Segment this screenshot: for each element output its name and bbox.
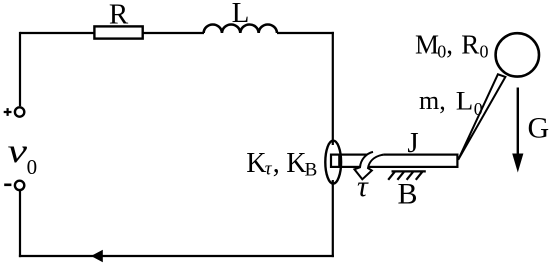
- svg-text:0: 0: [474, 99, 483, 119]
- wire bottom horizontal: [19, 255, 334, 257]
- resistor R: [94, 26, 142, 38]
- hatch stroke 3: [407, 171, 414, 179]
- svg-text:B: B: [397, 177, 417, 210]
- wire motor-to-bottom vertical: [332, 180, 334, 257]
- svg-text:M: M: [415, 30, 439, 60]
- wire left vertical upper: [19, 32, 21, 106]
- svg-text:τ: τ: [265, 159, 273, 180]
- hatch stroke 4: [416, 171, 423, 179]
- wire left vertical lower: [19, 191, 21, 258]
- terminal plus circle: [15, 107, 24, 116]
- svg-text:K: K: [286, 148, 306, 179]
- svg-text:L: L: [456, 87, 474, 116]
- wire top-left horizontal: [20, 32, 95, 34]
- current direction arrowhead: [91, 250, 103, 263]
- svg-text:v: v: [8, 133, 29, 170]
- gravity arrowhead: [512, 154, 523, 173]
- svg-text:R: R: [109, 0, 129, 31]
- shaft bar J: [331, 155, 457, 167]
- minus sign: [4, 184, 11, 187]
- svg-text:,: ,: [273, 148, 280, 179]
- svg-text:R: R: [461, 30, 479, 60]
- torque arrow tau (white ribbon): [354, 152, 383, 179]
- gravity arrow line: [517, 88, 519, 157]
- inductor L: [204, 24, 277, 33]
- wire resistor-to-inductor: [143, 32, 204, 34]
- svg-text:τ: τ: [357, 170, 369, 203]
- damper hatch line B: [392, 170, 426, 172]
- svg-text:0: 0: [437, 42, 446, 62]
- svg-text:,: ,: [446, 30, 453, 60]
- shaft hub divider: [338, 155, 340, 167]
- svg-text:0: 0: [480, 42, 489, 62]
- motor ellipse Kt KB: [325, 141, 341, 184]
- svg-text:K: K: [246, 148, 266, 179]
- hatch stroke 2: [397, 171, 404, 179]
- svg-text:m,: m,: [419, 86, 446, 115]
- pendulum rod m L0: [458, 74, 505, 160]
- terminal minus circle: [15, 181, 24, 190]
- wire right vertical: [332, 32, 334, 145]
- svg-text:0: 0: [27, 155, 37, 179]
- wire inductor-to-corner: [277, 32, 334, 34]
- svg-text:L: L: [232, 0, 250, 29]
- svg-text:B: B: [305, 160, 318, 181]
- hatch stroke 1: [388, 171, 395, 179]
- pendulum ball M0 R0: [496, 33, 539, 76]
- plus sign: [4, 108, 12, 116]
- svg-text:G: G: [528, 112, 550, 145]
- svg-text:J: J: [407, 127, 418, 159]
